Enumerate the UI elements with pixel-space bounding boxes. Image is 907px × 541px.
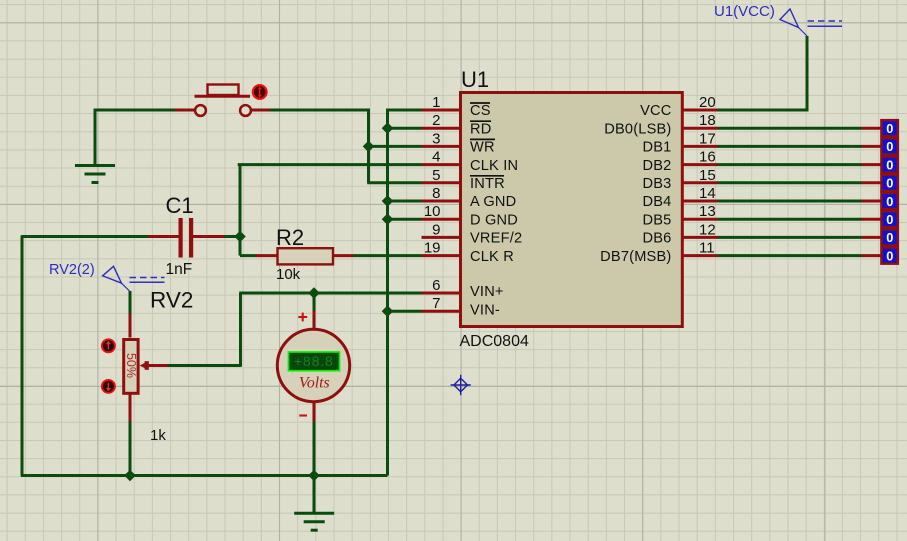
svg-text:19: 19 bbox=[424, 240, 441, 257]
svg-text:DB3: DB3 bbox=[643, 176, 672, 192]
svg-text:17: 17 bbox=[699, 130, 716, 147]
svg-text:0: 0 bbox=[886, 176, 893, 191]
svg-text:50%: 50% bbox=[124, 353, 138, 378]
svg-text:1k: 1k bbox=[150, 427, 166, 444]
svg-text:3: 3 bbox=[432, 130, 440, 147]
svg-text:9: 9 bbox=[432, 221, 440, 238]
svg-text:0: 0 bbox=[886, 139, 893, 154]
svg-text:VREF/2: VREF/2 bbox=[470, 231, 522, 247]
svg-text:0: 0 bbox=[886, 248, 893, 263]
svg-text:16: 16 bbox=[699, 149, 716, 166]
svg-text:5: 5 bbox=[432, 167, 440, 184]
svg-text:DB2: DB2 bbox=[643, 158, 672, 174]
svg-text:12: 12 bbox=[699, 221, 716, 238]
svg-text:0: 0 bbox=[886, 194, 893, 209]
svg-text:15: 15 bbox=[699, 167, 716, 184]
svg-text:0: 0 bbox=[886, 121, 893, 136]
svg-text:2: 2 bbox=[432, 112, 440, 129]
svg-text:6: 6 bbox=[432, 277, 440, 294]
svg-text:7: 7 bbox=[432, 295, 440, 312]
svg-text:VIN-: VIN- bbox=[470, 302, 500, 318]
svg-text:CS: CS bbox=[470, 103, 491, 119]
svg-text:U1(VCC): U1(VCC) bbox=[714, 3, 775, 20]
svg-text:DB6: DB6 bbox=[643, 231, 672, 247]
svg-text:INTR: INTR bbox=[470, 176, 505, 192]
svg-text:14: 14 bbox=[699, 185, 716, 202]
svg-text:ADC0804: ADC0804 bbox=[460, 333, 529, 350]
svg-text:RD: RD bbox=[470, 121, 491, 137]
svg-text:+88.8: +88.8 bbox=[294, 354, 334, 370]
svg-text:DB5: DB5 bbox=[643, 212, 672, 228]
svg-text:R2: R2 bbox=[276, 225, 304, 250]
svg-text:10: 10 bbox=[424, 203, 441, 220]
svg-text:11: 11 bbox=[699, 240, 715, 257]
svg-text:1nF: 1nF bbox=[166, 261, 193, 278]
svg-text:1: 1 bbox=[432, 94, 440, 111]
svg-text:WR: WR bbox=[470, 140, 495, 156]
svg-text:DB1: DB1 bbox=[643, 140, 672, 156]
svg-text:18: 18 bbox=[699, 112, 716, 129]
svg-text:A GND: A GND bbox=[470, 194, 516, 210]
svg-text:0: 0 bbox=[886, 212, 893, 227]
svg-text:4: 4 bbox=[432, 149, 440, 166]
svg-text:D GND: D GND bbox=[470, 212, 518, 228]
svg-text:RV2(2): RV2(2) bbox=[49, 262, 95, 278]
svg-text:VIN+: VIN+ bbox=[470, 284, 504, 300]
svg-text:Volts: Volts bbox=[299, 374, 330, 391]
svg-text:VCC: VCC bbox=[640, 103, 671, 119]
svg-text:CLK IN: CLK IN bbox=[470, 158, 518, 174]
svg-text:10k: 10k bbox=[276, 266, 301, 283]
svg-text:DB0(LSB): DB0(LSB) bbox=[604, 121, 671, 137]
svg-text:RV2: RV2 bbox=[150, 288, 193, 313]
svg-text:0: 0 bbox=[886, 157, 893, 172]
svg-text:C1: C1 bbox=[166, 193, 194, 218]
svg-text:20: 20 bbox=[699, 94, 716, 111]
svg-text:13: 13 bbox=[699, 203, 716, 220]
svg-text:DB4: DB4 bbox=[643, 194, 672, 210]
svg-text:DB7(MSB): DB7(MSB) bbox=[600, 249, 671, 265]
svg-text:8: 8 bbox=[432, 185, 440, 202]
svg-text:CLK R: CLK R bbox=[470, 249, 514, 265]
svg-text:U1: U1 bbox=[461, 67, 489, 92]
svg-text:0: 0 bbox=[886, 230, 893, 245]
